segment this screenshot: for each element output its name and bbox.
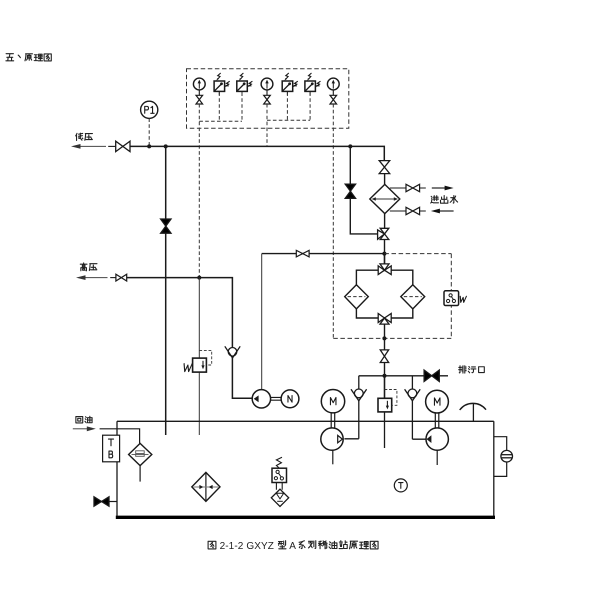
pump left xyxy=(321,428,343,450)
wire pump discharge to filter junction xyxy=(262,253,385,255)
wire low pressure stub xyxy=(108,145,116,147)
valve low pressure outlet xyxy=(116,141,130,151)
pressure switch S4 xyxy=(305,73,321,95)
svg-text:A: A xyxy=(289,541,296,552)
wire low pressure main line xyxy=(130,146,384,160)
bypass valve (closed) xyxy=(345,184,355,198)
label 回油 xyxy=(76,416,92,423)
instrument panel dashed enclosure xyxy=(187,69,349,129)
shaft small pump xyxy=(271,397,281,400)
shutoff valve under gauge P2 xyxy=(196,95,203,104)
level switch float xyxy=(271,489,288,506)
three-way changeover valve top xyxy=(378,264,391,275)
wire branch to tank xyxy=(165,146,167,435)
pressure gauge P3 xyxy=(261,78,273,95)
node on main line at cooler bypass xyxy=(348,144,352,148)
wire high pressure main xyxy=(127,278,253,399)
wire relief valve 2 to tank xyxy=(384,412,386,448)
return strainer xyxy=(129,443,152,465)
relief valve 1 xyxy=(193,350,212,372)
motor N small pump xyxy=(281,390,299,408)
shaft right xyxy=(435,413,439,428)
three-way valve under cooler xyxy=(378,228,389,239)
wire to relief valve 2 xyxy=(384,376,386,399)
node high pressure sensing junction xyxy=(197,276,201,280)
node cooler outlet junction xyxy=(382,252,386,256)
node on main line at P1 xyxy=(147,144,151,148)
level gauge xyxy=(501,450,513,462)
return oil arrow xyxy=(73,426,96,431)
wire filter outlet valve down xyxy=(384,363,386,399)
level switch contact box xyxy=(272,468,287,482)
instrument sensing dashed lines group 1 xyxy=(199,92,242,277)
gauge P4 sensing dashed line / duplex filter enclosure left edge xyxy=(332,104,334,339)
node drain manifold junction xyxy=(383,374,387,378)
gauge P1 dashed sensing line xyxy=(148,118,150,146)
valve water inlet xyxy=(406,207,420,214)
wire pump left suction xyxy=(332,450,334,464)
wire pump right suction xyxy=(436,450,438,465)
label 进出水 xyxy=(431,196,458,204)
wire three-way valve to filter junction xyxy=(384,240,386,264)
three-way changeover valve bottom xyxy=(378,314,391,325)
wire drain manifold xyxy=(359,375,448,377)
valve on pump discharge line xyxy=(296,250,309,257)
wire return line xyxy=(100,429,140,444)
label 高压 xyxy=(80,263,97,271)
drain valve (closed) 排污 xyxy=(424,370,439,381)
svg-text:2-1-2 GXYZ: 2-1-2 GXYZ xyxy=(220,541,274,552)
air breather xyxy=(460,403,486,421)
wire right pump branch xyxy=(412,376,426,439)
pressure gauge P4 xyxy=(327,78,339,95)
pressure switch S3 xyxy=(282,73,298,95)
shutoff valve under gauge P3 xyxy=(264,95,271,104)
water outlet arrow xyxy=(432,186,454,191)
oil tank xyxy=(116,421,495,517)
label W differential indicator xyxy=(459,296,466,302)
thermometer T xyxy=(394,479,407,492)
shaft left xyxy=(331,413,335,428)
wire filter bottom manifold xyxy=(356,309,412,318)
wire left pump branch xyxy=(344,376,358,439)
differential pressure signal device xyxy=(444,291,459,306)
level switch stem xyxy=(276,483,282,490)
label W relief valve 1 xyxy=(183,364,192,372)
shut valve (closed) on tank branch xyxy=(161,219,171,233)
shutoff valve under gauge P4 xyxy=(330,95,337,104)
valve water outlet xyxy=(406,184,420,191)
wire small pump riser xyxy=(261,254,263,390)
wire valve to cooler xyxy=(384,174,386,185)
pressure switch S1 xyxy=(214,73,230,95)
wire cooler bypass xyxy=(350,146,377,234)
cooler inlet valve xyxy=(379,161,390,174)
low pressure outlet arrow xyxy=(71,144,106,149)
pressure switch S2 xyxy=(237,73,253,95)
high pressure outlet arrow xyxy=(76,275,108,280)
filter outlet valve xyxy=(380,350,388,363)
wire water inlet xyxy=(390,210,426,212)
wire cooler to three-way valve xyxy=(384,214,386,229)
filter 1 xyxy=(345,285,369,309)
thermostat TB box xyxy=(103,435,120,462)
wire junction to filter top valve xyxy=(384,254,386,264)
level gauge piping xyxy=(494,437,507,477)
filter 2 xyxy=(401,285,425,309)
pressure gauge P2 xyxy=(193,78,205,95)
cooler (heat exchanger) xyxy=(370,184,400,213)
relief valve 2 xyxy=(378,390,397,412)
check valve small pump xyxy=(225,346,240,358)
label 低压 xyxy=(76,133,93,140)
instrument sensing dashed lines group 2 xyxy=(267,92,310,146)
wire water outlet xyxy=(390,187,426,189)
wire high pressure stub xyxy=(110,277,116,279)
motor M right xyxy=(426,390,449,413)
duplex filter dashed enclosure xyxy=(333,254,451,339)
valve high pressure outlet xyxy=(116,274,127,281)
water inlet arrow xyxy=(431,209,454,214)
pump right xyxy=(426,428,448,450)
pressure gauge P1 xyxy=(141,101,158,118)
label title 五、原理图 xyxy=(6,54,51,61)
wire relief valve 1 branch xyxy=(198,278,200,435)
pump small (high pressure) xyxy=(252,390,270,408)
wire filter outlet xyxy=(384,324,386,350)
level switch spring xyxy=(276,457,282,468)
wire filter top manifold xyxy=(356,270,412,285)
label caption 图2-1-2 xyxy=(208,541,378,552)
node filter outlet on enclosure edge xyxy=(382,336,386,340)
label 排污口 xyxy=(459,366,485,373)
node on main line at return branch xyxy=(164,144,168,148)
wire strainer outlet xyxy=(139,466,141,482)
check valve right pump xyxy=(405,389,421,401)
wire drain valve to tank xyxy=(109,501,117,503)
tank drain valve (closed) xyxy=(94,497,109,506)
heater in tank xyxy=(192,472,220,501)
motor M left xyxy=(321,390,344,413)
check valve left pump xyxy=(351,389,367,401)
